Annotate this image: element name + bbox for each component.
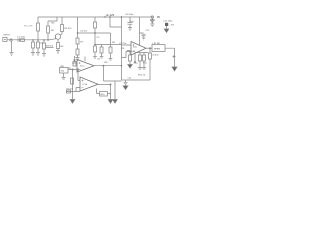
svg-text:C1 100n: C1 100n bbox=[17, 37, 26, 39]
svg-text:R5 47k: R5 47k bbox=[65, 28, 73, 30]
svg-text:INPUT: INPUT bbox=[4, 35, 11, 37]
svg-text:SPKR: SPKR bbox=[154, 49, 160, 51]
svg-text:R3 10k: R3 10k bbox=[46, 46, 54, 48]
svg-text:IC1b: IC1b bbox=[83, 84, 88, 86]
svg-text:C7 47n: C7 47n bbox=[119, 43, 127, 45]
svg-text:8 ohm: 8 ohm bbox=[153, 55, 159, 57]
svg-text:LS1 8R: LS1 8R bbox=[153, 43, 161, 45]
svg-text:9V: 9V bbox=[157, 16, 160, 19]
svg-text:1M: 1M bbox=[51, 30, 54, 32]
svg-text:C9 100n: C9 100n bbox=[125, 14, 134, 16]
svg-text:C12 100u: C12 100u bbox=[163, 21, 173, 23]
svg-text:C4 10u: C4 10u bbox=[80, 31, 88, 33]
svg-text:C8 10n: C8 10n bbox=[66, 89, 74, 91]
svg-text:R1 2.2M: R1 2.2M bbox=[24, 26, 32, 28]
svg-text:R12 10: R12 10 bbox=[138, 75, 146, 77]
svg-text:IC1a: IC1a bbox=[80, 65, 85, 67]
